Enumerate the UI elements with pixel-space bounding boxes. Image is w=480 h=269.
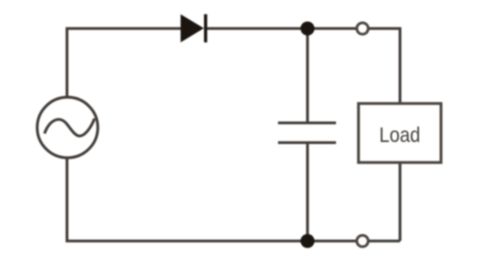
svg-text:Load: Load [379, 123, 420, 147]
